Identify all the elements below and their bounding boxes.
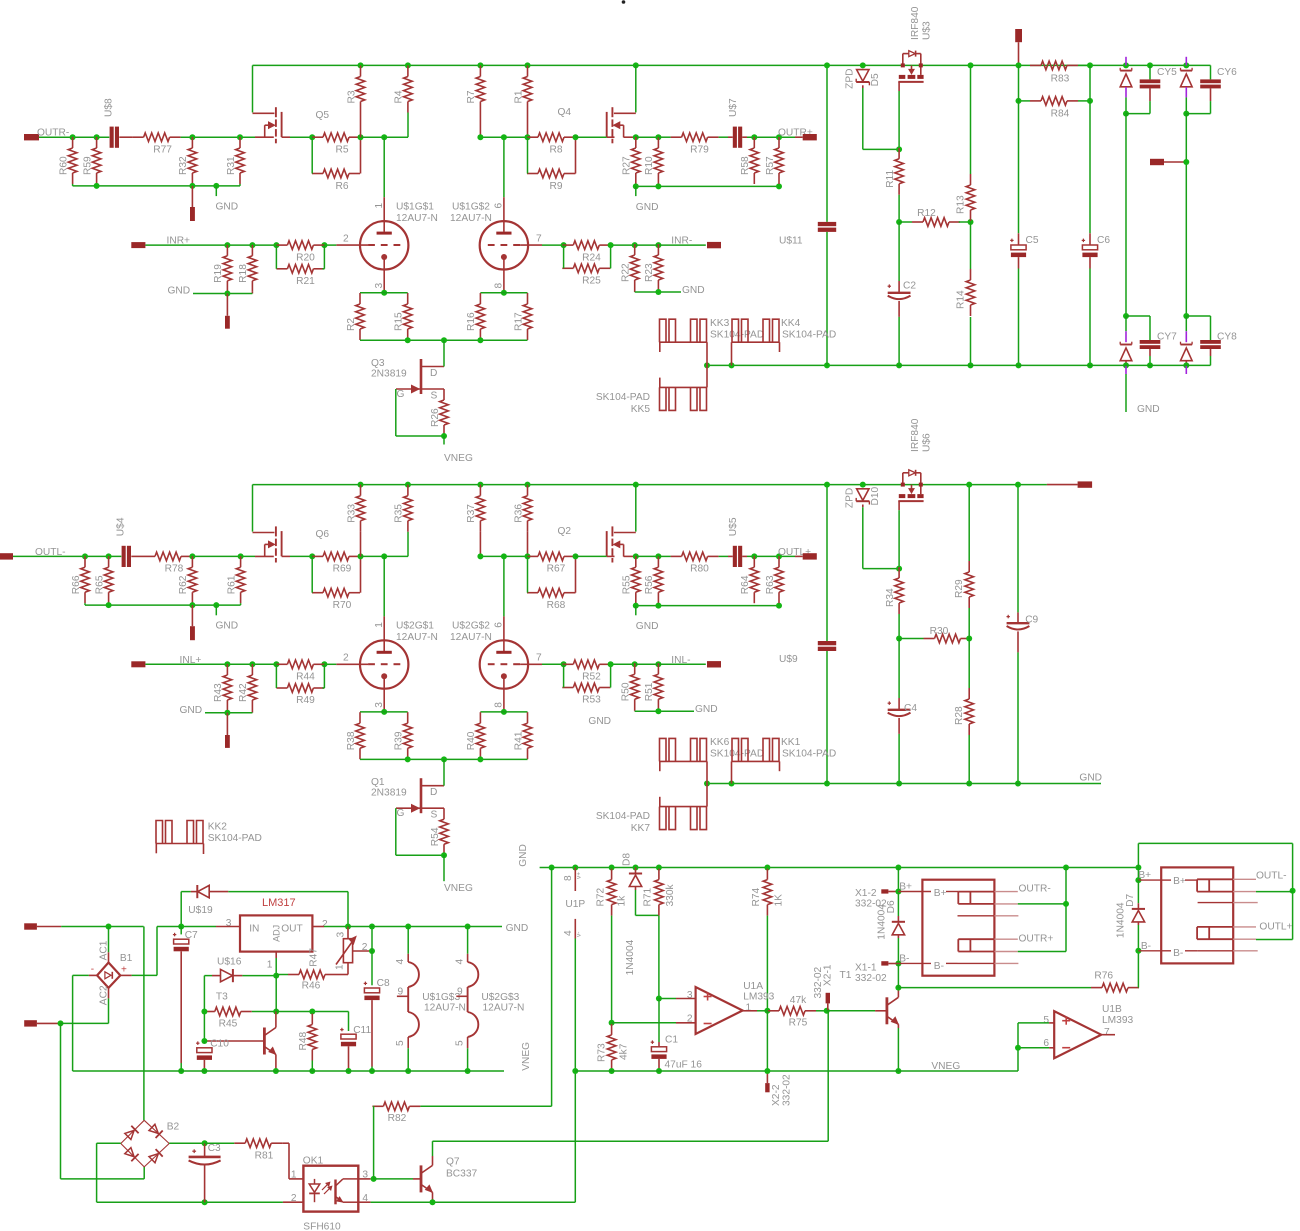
svg-text:Q5: Q5 [316, 110, 330, 121]
junction [896, 781, 902, 787]
svg-text:6: 6 [494, 203, 505, 209]
junction [369, 948, 375, 954]
wire - cathode bus [360, 339, 528, 341]
junction [729, 362, 735, 368]
junction [729, 781, 735, 787]
junction [966, 781, 972, 787]
resistor R29 [965, 572, 974, 597]
capacitor C9 [1017, 485, 1019, 613]
svg-text:R82: R82 [388, 1113, 407, 1124]
regulator U$18 LM317 [240, 915, 312, 951]
resistor R28 [965, 699, 974, 724]
junction [655, 708, 661, 714]
svg-text:R8: R8 [549, 145, 562, 156]
svg-text:R34: R34 [885, 588, 896, 607]
svg-text:R58: R58 [740, 156, 751, 175]
resistor R59 [92, 148, 101, 173]
wire [480, 555, 527, 557]
wire [145, 663, 276, 665]
svg-text:VNEG: VNEG [444, 453, 473, 464]
junction [405, 482, 411, 488]
junction [477, 482, 483, 488]
svg-text:R28: R28 [954, 706, 965, 725]
junction [465, 1068, 471, 1074]
svg-text:C11: C11 [353, 1025, 371, 1036]
junction [525, 134, 531, 140]
junction [369, 924, 375, 930]
svg-text:8: 8 [563, 875, 574, 881]
junction [776, 553, 782, 559]
wire - Q7 collector to X2-1 [433, 1140, 829, 1142]
svg-text:-: - [91, 964, 94, 975]
svg-text:R60: R60 [58, 156, 69, 175]
svg-text:GND: GND [682, 285, 705, 296]
junction [968, 62, 974, 68]
heatsink KK6 [659, 760, 707, 762]
wire [282, 136, 290, 138]
svg-text:Q7: Q7 [446, 1157, 460, 1168]
wire [1256, 891, 1293, 893]
svg-text:1K: 1K [774, 894, 785, 907]
wire - VNEG rail left [73, 1070, 504, 1072]
wire [480, 711, 527, 713]
resistor R19 [223, 256, 232, 281]
pin 6 [1018, 1047, 1049, 1049]
svg-text:T3: T3 [216, 991, 228, 1002]
junction [477, 134, 483, 140]
wire [658, 555, 670, 557]
junction [776, 603, 782, 609]
pin 2 [336, 663, 368, 665]
wire [145, 244, 276, 246]
junction [968, 362, 974, 368]
svg-text:SK104-PAD: SK104-PAD [710, 749, 764, 760]
junction [655, 553, 661, 559]
pin B1 AC1 [108, 927, 110, 953]
svg-text:3: 3 [374, 702, 385, 708]
junction [273, 1068, 279, 1074]
svg-text:+: + [121, 965, 127, 976]
resistor R77 [144, 133, 170, 142]
svg-text:BC337: BC337 [446, 1169, 477, 1180]
junction [525, 62, 531, 68]
resistor R1 [523, 77, 532, 102]
wire [255, 555, 274, 557]
svg-text:GND: GND [180, 705, 203, 716]
wire [742, 136, 747, 138]
resistor R79 [682, 133, 708, 142]
wire [480, 136, 527, 138]
junction [561, 242, 567, 248]
resistor R66 [81, 567, 90, 592]
terminal pad [190, 207, 195, 221]
opamp power U1P pin 4 [574, 919, 576, 939]
pin 8 [503, 677, 505, 712]
junction [381, 709, 387, 715]
capacitor C5 [1018, 65, 1020, 233]
junction [189, 602, 195, 608]
mosfet U$6 IRF840 [899, 494, 906, 498]
wire - VNEG rail right [575, 1070, 1018, 1072]
wire [635, 244, 706, 246]
junction [202, 1199, 208, 1205]
wire [361, 136, 409, 138]
svg-text:3: 3 [336, 932, 347, 938]
svg-text:12AU7-N: 12AU7-N [450, 213, 492, 224]
svg-text:R6: R6 [335, 181, 348, 192]
svg-text:R70: R70 [333, 600, 352, 611]
cursor mark artifact [622, 0, 626, 4]
transistor Q6 (MOSFET) [252, 485, 254, 532]
wire - bottom gnd rail left [97, 1201, 283, 1203]
diode D6 1N4004 [897, 892, 899, 917]
svg-text:X1-1: X1-1 [855, 963, 877, 974]
svg-text:12AU7-N: 12AU7-N [483, 1003, 525, 1014]
junction [966, 636, 972, 642]
wire [251, 711, 253, 713]
resistor R52 [573, 660, 599, 669]
junction [896, 219, 902, 225]
junction [1135, 865, 1141, 871]
pin 1 [289, 1178, 303, 1180]
wire - gnd bus middle section [707, 783, 1101, 785]
junction [1123, 313, 1129, 319]
wire [1125, 114, 1127, 316]
bridge rectifier B1 [97, 963, 120, 988]
junction [358, 553, 364, 559]
svg-text:U$2G$1: U$2G$1 [396, 621, 434, 632]
junction [608, 661, 614, 667]
svg-text:U$7: U$7 [728, 98, 739, 117]
junction [751, 134, 757, 140]
capacitor C11 [348, 1012, 350, 1032]
wire [719, 136, 728, 138]
junction [561, 661, 567, 667]
resistor R84 [1041, 97, 1067, 106]
resistor R75 47k [779, 1007, 805, 1016]
junction [633, 482, 639, 488]
junction [273, 1009, 279, 1015]
svg-text:U$3: U$3 [921, 21, 932, 40]
resistor R11 [895, 159, 904, 184]
wire - gnd [193, 293, 252, 295]
svg-text:R73: R73 [596, 1043, 607, 1062]
svg-text:U$2G$2: U$2G$2 [452, 621, 490, 632]
wire [96, 1143, 98, 1202]
terminal pad X2-1 332-02 [826, 993, 830, 1004]
svg-text:AC1: AC1 [98, 940, 109, 960]
resistor R26 [440, 400, 449, 425]
svg-text:SK104-PAD: SK104-PAD [710, 330, 764, 341]
junction [704, 362, 710, 368]
resistor R30 [935, 634, 961, 643]
wire [96, 184, 98, 186]
wire [719, 555, 728, 557]
wire [1137, 868, 1139, 881]
wire [634, 710, 636, 711]
resistor R9 [538, 169, 564, 178]
wire [636, 136, 659, 138]
wire - T1 collector row to R76 [898, 987, 1091, 989]
OK1 LED [314, 1179, 316, 1184]
resistor R18 [248, 256, 257, 281]
wire [360, 292, 408, 294]
svg-text:R10: R10 [644, 156, 655, 175]
junction [764, 865, 770, 871]
svg-text:CY6: CY6 [1217, 67, 1237, 78]
svg-text:R81: R81 [255, 1151, 274, 1162]
svg-text:GND: GND [636, 202, 659, 213]
terminal pad above C5 rail [1015, 29, 1022, 42]
svg-text:v+: v+ [576, 872, 583, 879]
svg-text:C6: C6 [1097, 235, 1110, 246]
transistor Q3 2N3819 (JFET) [420, 359, 423, 394]
wire [360, 532, 362, 557]
wire [239, 184, 241, 186]
svg-text:GND: GND [1079, 773, 1102, 784]
junction [1016, 62, 1022, 68]
svg-text:2: 2 [362, 942, 368, 953]
wire [576, 555, 607, 557]
transistor Q7 BC337 (NPN) [413, 1178, 421, 1180]
resistor R82 [383, 1102, 409, 1111]
svg-text:AC2: AC2 [98, 985, 109, 1005]
resistor R31 [236, 148, 245, 173]
svg-text:R32: R32 [178, 156, 189, 175]
bridge rectifier B2 [121, 1120, 144, 1143]
capacitor U$7 [733, 127, 737, 148]
junction [1063, 865, 1069, 871]
transistor Q1 2N3819 (JFET) [420, 778, 423, 813]
resistor R72 1k [607, 880, 616, 905]
wire [360, 113, 362, 138]
transistor T3 (NPN) [263, 1028, 266, 1055]
junction [405, 1068, 411, 1074]
svg-text:OUTL+: OUTL+ [1259, 922, 1292, 933]
svg-text:4k7: 4k7 [618, 1043, 629, 1060]
svg-text:OUT: OUT [281, 924, 303, 935]
svg-text:KK5: KK5 [631, 404, 651, 415]
junction [224, 291, 230, 297]
resistor R58 [750, 148, 759, 173]
svg-text:T1: T1 [840, 970, 852, 981]
junction [477, 553, 483, 559]
junction [1135, 948, 1141, 954]
wire [610, 244, 634, 246]
svg-text:R39: R39 [394, 731, 405, 750]
wire [374, 1178, 413, 1180]
svg-text:R57: R57 [765, 156, 776, 175]
opamp U1A LM393 [696, 987, 743, 1034]
triode U$1G$1 12AU7-N [360, 221, 408, 269]
junction [201, 1038, 207, 1044]
junction [1087, 62, 1093, 68]
junction [501, 290, 507, 296]
capacitor U$9 [826, 485, 828, 641]
svg-text:R16: R16 [466, 312, 477, 331]
wire [657, 710, 659, 711]
ground stub [215, 605, 217, 615]
svg-text:R19: R19 [213, 264, 224, 283]
junction [824, 781, 830, 787]
svg-text:R56: R56 [644, 575, 655, 594]
junction [501, 134, 507, 140]
capacitor C2 [898, 222, 900, 281]
svg-text:R49: R49 [296, 695, 315, 706]
resistor R3 [356, 77, 365, 102]
svg-text:CY7: CY7 [1157, 332, 1177, 343]
svg-text:1: 1 [746, 1003, 752, 1014]
svg-text:SK104-PAD: SK104-PAD [208, 833, 262, 844]
junction [1147, 362, 1153, 368]
svg-text:R66: R66 [71, 575, 82, 594]
svg-text:2N3819: 2N3819 [371, 369, 407, 380]
junction [609, 865, 615, 871]
junction [477, 62, 483, 68]
resistor R68 [538, 588, 564, 597]
svg-text:U$5: U$5 [728, 517, 739, 536]
safety cap CY8 - capacitor [1186, 315, 1210, 317]
junction [655, 242, 661, 248]
wire [371, 1201, 576, 1203]
svg-text:OUTR+: OUTR+ [1019, 934, 1054, 945]
svg-text:B1: B1 [120, 953, 133, 964]
capacitor C10 [203, 1041, 205, 1043]
resistor R13 [966, 185, 975, 210]
ground wire [1125, 374, 1127, 412]
junction [202, 1140, 208, 1146]
resistor R7 [476, 77, 485, 102]
junction [477, 337, 483, 343]
resistor R24 [573, 241, 599, 250]
safety cap CY5 - capacitor [1147, 62, 1153, 68]
junction [465, 924, 471, 930]
resistor R32 [188, 148, 197, 173]
junction [106, 924, 112, 930]
wire [728, 555, 733, 557]
capacitor C6 [1089, 65, 1091, 233]
wire [657, 291, 659, 292]
junction [381, 553, 387, 559]
capacitor C1 47uF 16 [658, 999, 660, 1043]
pin 3 [383, 257, 385, 292]
junction [501, 709, 507, 715]
resistor R49 [287, 684, 313, 693]
transistor Q4 (MOSFET) [635, 65, 637, 112]
svg-text:B+: B+ [1173, 876, 1186, 887]
junction [1183, 111, 1189, 117]
junction [1123, 362, 1129, 368]
svg-text:R40: R40 [466, 731, 477, 750]
wire [360, 137, 362, 173]
transistor Q5 (MOSFET) [252, 65, 254, 112]
wire [607, 555, 615, 557]
svg-text:R22: R22 [621, 263, 632, 282]
ground stub [635, 186, 637, 196]
wire [563, 245, 565, 268]
connector 332-02 left channel B+/B- [1161, 867, 1233, 963]
svg-text:1: 1 [291, 1170, 297, 1181]
svg-text:X1-2: X1-2 [855, 888, 877, 899]
svg-text:VNEG: VNEG [931, 1061, 960, 1072]
opamp U1B LM393 [1054, 1011, 1101, 1058]
resistor R12 [923, 218, 949, 227]
wire [636, 185, 779, 187]
junction [249, 661, 255, 667]
svg-text:GND: GND [506, 923, 529, 934]
trimmer R47 [343, 939, 352, 963]
junction [358, 134, 364, 140]
wire [479, 113, 481, 138]
junction [441, 337, 447, 343]
junction [895, 985, 901, 991]
pin 6 [503, 556, 505, 616]
svg-text:U$16: U$16 [217, 957, 242, 968]
resistor R38 [356, 723, 365, 748]
svg-text:KK1: KK1 [781, 737, 801, 748]
wire [527, 532, 529, 557]
svg-text:R72: R72 [595, 887, 606, 906]
junction [237, 134, 243, 140]
wire - gnd [205, 712, 252, 714]
mosfet U$3 IRF840 [899, 75, 906, 79]
svg-text:GND: GND [168, 286, 191, 297]
junction [309, 553, 315, 559]
junction [321, 242, 327, 248]
wire - top loop to OUTL [1138, 842, 1292, 844]
junction [895, 961, 901, 967]
svg-text:R7: R7 [466, 90, 477, 103]
svg-text:U$4: U$4 [115, 517, 126, 536]
resistor R53 [573, 683, 599, 692]
svg-text:R5: R5 [335, 145, 348, 156]
junction [633, 183, 639, 189]
junction [896, 362, 902, 368]
capacitor C8 [371, 927, 373, 986]
resistor R2 [356, 304, 365, 329]
junction [381, 290, 387, 296]
junction [189, 553, 195, 559]
terminal pad [225, 735, 230, 748]
svg-text:R48: R48 [298, 1031, 309, 1050]
svg-text:R68: R68 [547, 600, 566, 611]
junction [405, 337, 411, 343]
wire - R48/C11 row [276, 1011, 348, 1013]
svg-text:1k: 1k [617, 895, 628, 907]
terminal pad OUTR+ [803, 134, 817, 140]
svg-text:2: 2 [291, 1193, 297, 1204]
junction [633, 62, 639, 68]
svg-text:VNEG: VNEG [444, 883, 473, 894]
junction [189, 183, 195, 189]
resistor R76 [1102, 983, 1128, 992]
wire [1185, 114, 1187, 316]
svg-text:R31: R31 [226, 156, 237, 175]
resistor R27 [632, 148, 641, 173]
junction [609, 1020, 615, 1026]
wire [527, 556, 529, 592]
wire - divider gnd bus [85, 604, 241, 606]
wire [576, 136, 607, 138]
svg-text:R1: R1 [513, 90, 524, 103]
svg-text:5: 5 [454, 1040, 465, 1046]
junction [824, 1008, 830, 1014]
wire [322, 268, 324, 270]
junction [106, 553, 112, 559]
junction [1183, 362, 1189, 368]
wire [1018, 951, 1066, 953]
svg-text:D: D [430, 368, 437, 379]
